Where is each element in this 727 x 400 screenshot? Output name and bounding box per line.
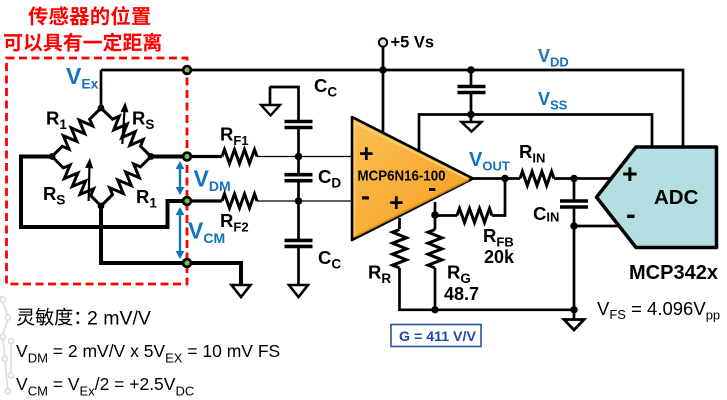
svg-text:+: +: [622, 159, 638, 189]
resistor RFB: [457, 209, 492, 223]
wire: VSS rail (op-amp to ADC): [419, 115, 652, 152]
wire: RF1 to op-amp + (thin): [257, 156, 353, 158]
svg-text:+: +: [359, 140, 374, 168]
capacitor CC (top): [285, 122, 313, 128]
junction dot (VDD-cap): [467, 66, 475, 74]
junction dot (VOUT/RFB): [501, 175, 509, 183]
arrow on RS top-right: [121, 102, 129, 144]
svg-text:VOUT: VOUT: [469, 149, 510, 174]
svg-text:20k: 20k: [484, 247, 515, 267]
interface node dot (common): [183, 259, 191, 267]
capacitor CD: [285, 175, 313, 181]
annotation: red note line 1 (sensor position): [28, 6, 150, 25]
node dot: bridge right: [148, 153, 155, 160]
wire: CIN top lead: [573, 179, 576, 202]
wire: CIN bottom lead: [573, 207, 576, 226]
ground (top, inverted-L): [261, 105, 280, 116]
wire: RG stub: [434, 202, 437, 230]
ground (below CC bottom): [289, 285, 308, 297]
wire: ADC - input: [574, 225, 624, 228]
svg-text:RF1: RF1: [220, 124, 249, 149]
resistor RF2: [222, 194, 257, 208]
svg-text:CC: CC: [314, 75, 337, 100]
junction dot (CIN bottom): [570, 222, 577, 229]
svg-text:-: -: [626, 199, 636, 231]
terminal: +5 Vs circle: [379, 38, 387, 46]
svg-text:RIN: RIN: [519, 141, 545, 166]
ground (bridge bottom): [232, 285, 251, 297]
wire: RIN to ADC +: [554, 177, 621, 180]
svg-text:CC: CC: [318, 247, 341, 272]
resistor R1 (bridge bottom-right): [101, 157, 151, 207]
box G = 411 V/V: [391, 325, 481, 347]
svg-text:RR: RR: [368, 262, 391, 287]
wire: bypass cap bottom lead: [470, 93, 473, 115]
wire: bottom rail to ground: [400, 268, 575, 310]
svg-text:R1: R1: [136, 186, 157, 211]
svg-text:RG: RG: [447, 262, 471, 287]
junction dot (VSS-ground): [467, 111, 475, 119]
capacitor CC (bottom): [285, 240, 313, 246]
junction dot (+5 rail): [379, 66, 386, 73]
wire: bridge bottom node to ground: [101, 206, 241, 285]
wire: bypass cap top lead: [470, 70, 473, 87]
decorative watermark (faint): [0, 296, 14, 394]
svg-text:RS: RS: [43, 183, 65, 208]
arrow on RS bottom-left: [85, 158, 93, 201]
wire: CD leads: [297, 157, 300, 202]
resistor RF1: [222, 150, 257, 164]
svg-text:RF2: RF2: [220, 210, 249, 235]
wire: CC bottom leads: [297, 201, 300, 285]
svg-text:VDM = 2 mV/V x 5VEX = 10 mV FS: VDM = 2 mV/V x 5VEX = 10 mV FS: [16, 341, 280, 366]
svg-text:RS: RS: [132, 108, 154, 133]
svg-text:G = 411 V/V: G = 411 V/V: [399, 329, 476, 345]
capacitor CIN: [560, 201, 588, 207]
wire: RFB left lead: [435, 214, 457, 217]
capacitor (VDD bypass): [458, 87, 486, 93]
junction dot (RF1/CD): [295, 153, 303, 161]
junction dot (RF2/CC): [295, 197, 303, 205]
interface node dot (VDM+): [183, 153, 191, 161]
text: sensitivity line: [17, 308, 80, 326]
interface node dot (excitation): [183, 66, 191, 74]
resistor R1 (bridge top-left): [52, 108, 101, 157]
wire: bridge left node wrap-around to RF2: [21, 157, 187, 228]
svg-text:RFB: RFB: [483, 225, 514, 250]
ground (bottom right): [564, 310, 584, 330]
svg-text:R1: R1: [46, 108, 67, 133]
annotation: red note line 2 (can be some distance away): [4, 33, 161, 52]
wire: bridge right node to RF1: [151, 155, 187, 159]
svg-text:+5 Vs: +5 Vs: [391, 34, 435, 52]
junction dot (RG/RFB): [431, 211, 439, 219]
ADC U2 (MCP342x): [597, 147, 717, 248]
node dot: bridge left: [49, 153, 56, 160]
wire: CC top lead + bent ground: [270, 87, 299, 157]
wire: +5 Vs stub: [382, 46, 385, 70]
svg-text:VCM = VEx/2 = +2.5VDC: VCM = VEx/2 = +2.5VDC: [16, 374, 194, 399]
node dot: bridge bottom: [98, 203, 105, 210]
arrow VDM (blue double arrow): [176, 161, 185, 195]
svg-text:ADC: ADC: [654, 186, 699, 209]
svg-text:CD: CD: [318, 166, 341, 191]
wire: CIN to bottom rail: [573, 226, 576, 310]
sensor boundary box (red dashed): [7, 58, 188, 284]
arrow VCM (blue double arrow): [176, 207, 185, 259]
resistor RS (bridge top-right, variable): [101, 108, 151, 157]
wire: bridge excitation riser: [100, 70, 103, 111]
svg-text:-: -: [361, 181, 370, 211]
wire: op-amp VDD stub: [382, 70, 385, 135]
wire: VOUT: [473, 177, 520, 180]
wire: +5V / VDD top rail to ADC: [101, 70, 683, 147]
svg-text:VDM: VDM: [194, 166, 231, 195]
resistor RS (bridge bottom-left, variable): [52, 157, 101, 207]
svg-text:+: +: [389, 189, 404, 217]
resistor RIN: [520, 172, 554, 186]
junction dot (RG bottom): [431, 306, 438, 313]
wire: RFB right lead up to VOUT: [492, 179, 505, 216]
svg-text:VDD: VDD: [538, 46, 569, 70]
wire: RR stub: [398, 218, 401, 229]
svg-text:48.7: 48.7: [444, 284, 479, 304]
resistor RG: [428, 230, 442, 269]
svg-text:-: -: [428, 174, 436, 202]
resistor RR: [393, 230, 407, 269]
svg-text:CIN: CIN: [533, 203, 559, 225]
junction dot (bottom-right): [570, 306, 577, 313]
junction dot (CIN top): [570, 175, 577, 182]
interface node dot (VDM-): [183, 197, 191, 205]
svg-text:VEx: VEx: [66, 63, 99, 92]
svg-text:2 mV/V: 2 mV/V: [87, 308, 151, 330]
ground (VSS): [462, 115, 482, 132]
svg-text:VSS: VSS: [538, 89, 568, 113]
svg-text:VFS = 4.096Vpp: VFS = 4.096Vpp: [597, 298, 720, 323]
wire: RF2 to op-amp - (thin): [257, 200, 353, 202]
node dot: bridge top: [98, 105, 105, 112]
svg-text:MCP342x: MCP342x: [629, 262, 718, 284]
